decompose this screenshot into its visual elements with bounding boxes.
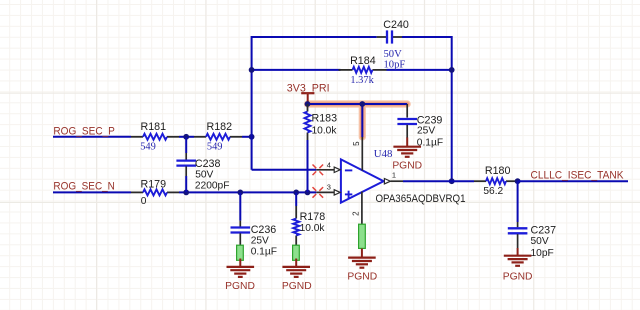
junction node P/feedback bbox=[249, 134, 255, 140]
svg-text:R183: R183 bbox=[312, 112, 338, 124]
resistor R179 bbox=[131, 191, 143, 193]
junction 3V3/pin5 bbox=[359, 101, 365, 107]
svg-text:10.0k: 10.0k bbox=[300, 223, 326, 234]
junction feedback-left R184 tap bbox=[249, 67, 255, 73]
no-ERC marker pin 3 bbox=[313, 187, 324, 198]
pin 2 lead bbox=[361, 192, 363, 249]
ground pin 2 PGND bbox=[361, 249, 363, 258]
svg-text:50V: 50V bbox=[195, 169, 213, 180]
svg-text:10pF: 10pF bbox=[384, 60, 406, 71]
capacitor C238 bbox=[176, 159, 196, 161]
junction node N/C236 bbox=[237, 190, 243, 196]
pin 3 lead bbox=[316, 191, 334, 193]
wire feedback top (C240 branch) bbox=[252, 36, 377, 38]
svg-text:1: 1 bbox=[392, 170, 396, 179]
svg-text:10.0k: 10.0k bbox=[312, 126, 338, 137]
junction 3V3/R183 bbox=[305, 101, 311, 107]
resistor R178 bbox=[295, 206, 297, 219]
svg-text:549: 549 bbox=[140, 141, 156, 152]
svg-text:50V: 50V bbox=[384, 49, 403, 60]
svg-text:OPA365AQDBVRQ1: OPA365AQDBVRQ1 bbox=[376, 193, 466, 205]
svg-text:0.1µF: 0.1µF bbox=[251, 247, 277, 258]
green highlight pin 2 bbox=[359, 224, 366, 248]
svg-text:5: 5 bbox=[352, 141, 361, 146]
wire ROG_SEC_P net segment bbox=[53, 136, 131, 138]
wire R181 to R182 bbox=[179, 136, 194, 138]
wire 3V3 rail horizontal bbox=[308, 103, 408, 105]
resistor R178 branch wire bbox=[295, 192, 297, 206]
wire R182 to feedback node bbox=[242, 136, 253, 138]
ground C239 PGND bbox=[406, 138, 408, 147]
svg-text:0.1µF: 0.1µF bbox=[417, 137, 443, 148]
green highlight R178 pin bbox=[293, 245, 300, 260]
svg-text:25V: 25V bbox=[251, 236, 269, 247]
green highlight C236 pin bbox=[237, 245, 244, 260]
ground R178 PGND bbox=[295, 259, 297, 267]
capacitor C236 bbox=[231, 226, 251, 228]
svg-text:R184: R184 bbox=[350, 55, 376, 67]
wire output to R180 bbox=[403, 180, 474, 182]
svg-text:R178: R178 bbox=[300, 211, 326, 223]
junction node N/R178 bbox=[293, 190, 299, 196]
pin 5 lead bbox=[361, 137, 363, 171]
svg-text:1.37k: 1.37k bbox=[350, 75, 374, 86]
svg-text:R180: R180 bbox=[485, 165, 511, 177]
svg-text:C236: C236 bbox=[251, 224, 277, 236]
wire R183 to + input line bbox=[307, 140, 309, 192]
svg-text:PGND: PGND bbox=[225, 281, 255, 292]
ground C237 PGND bbox=[517, 248, 519, 256]
svg-text:PGND: PGND bbox=[282, 281, 312, 292]
svg-text:10pF: 10pF bbox=[531, 248, 554, 259]
svg-text:R182: R182 bbox=[207, 121, 233, 133]
capacitor C238 branch wire bbox=[185, 137, 187, 153]
capacitor C240 bbox=[377, 36, 387, 38]
svg-text:U48: U48 bbox=[374, 148, 393, 160]
resistor R182 bbox=[194, 136, 206, 138]
svg-text:2: 2 bbox=[351, 211, 360, 216]
wire feedback R184 line bbox=[252, 69, 341, 71]
svg-text:CLLLC_ISEC_TANK: CLLLC_ISEC_TANK bbox=[531, 170, 625, 182]
svg-text:C237: C237 bbox=[531, 224, 557, 236]
ground C236 PGND bbox=[239, 259, 241, 267]
wire feedback left vertical bbox=[251, 36, 253, 170]
junction feedback-right R184 tap bbox=[449, 67, 455, 73]
svg-text:ROG_SEC_P: ROG_SEC_P bbox=[53, 126, 115, 138]
svg-text:50V: 50V bbox=[531, 236, 549, 247]
op-amp minus symbol bbox=[345, 169, 352, 171]
resistor R181 bbox=[131, 136, 143, 138]
svg-text:25V: 25V bbox=[417, 125, 435, 136]
svg-text:C238: C238 bbox=[195, 158, 221, 170]
highlight halo 3V3_PRI net bbox=[308, 104, 408, 137]
resistor R184 bbox=[339, 69, 353, 71]
op-amp U48 triangle bbox=[341, 159, 384, 202]
junction output/C237 bbox=[515, 178, 521, 184]
svg-text:ROG_SEC_N: ROG_SEC_N bbox=[53, 180, 115, 192]
svg-text:4: 4 bbox=[327, 160, 331, 169]
svg-text:C240: C240 bbox=[383, 19, 409, 31]
resistor R183 bbox=[307, 104, 309, 112]
pin 4 lead bbox=[316, 169, 334, 171]
capacitor C237 bbox=[508, 227, 528, 229]
wire feedback right vertical bbox=[451, 36, 453, 181]
power port 3V3_PRI bbox=[301, 92, 314, 94]
pin 4 arrowhead bbox=[334, 167, 340, 172]
svg-text:R179: R179 bbox=[141, 178, 167, 190]
svg-text:549: 549 bbox=[207, 141, 223, 152]
capacitor C236 branch wire bbox=[239, 192, 241, 220]
junction output/feedback bbox=[449, 178, 455, 184]
svg-text:R181: R181 bbox=[141, 121, 167, 133]
wire minus-input horizontal bbox=[252, 169, 317, 171]
svg-text:3V3_PRI: 3V3_PRI bbox=[287, 83, 330, 95]
wire R179 to opamp + input bbox=[179, 191, 316, 193]
svg-text:PGND: PGND bbox=[503, 272, 533, 283]
svg-text:PGND: PGND bbox=[347, 272, 377, 283]
capacitor C237 branch wire bbox=[517, 181, 519, 222]
capacitor C239 top lead bbox=[406, 104, 408, 118]
op-amp plus symbol bbox=[345, 193, 352, 195]
junction node P/C238 bbox=[183, 134, 189, 140]
svg-text:PGND: PGND bbox=[392, 160, 422, 171]
svg-text:2200pF: 2200pF bbox=[195, 180, 230, 191]
no-ERC marker pin 4 bbox=[313, 165, 324, 176]
wire to CLLLC_ISEC_TANK bbox=[518, 180, 628, 182]
svg-text:56.2: 56.2 bbox=[483, 186, 503, 197]
wire ROG_SEC_N net segment bbox=[53, 191, 131, 193]
pin 3 arrowhead bbox=[334, 190, 340, 195]
capacitor C239 bbox=[397, 118, 417, 120]
resistor R180 bbox=[474, 180, 486, 182]
svg-text:0: 0 bbox=[141, 196, 147, 207]
svg-text:3: 3 bbox=[327, 183, 331, 192]
junction node N/R183 bbox=[305, 190, 311, 196]
junction node N/C238 bbox=[183, 190, 189, 196]
wire pin5 branch vertical bbox=[361, 104, 363, 137]
pin 1 output lead bbox=[384, 179, 390, 184]
